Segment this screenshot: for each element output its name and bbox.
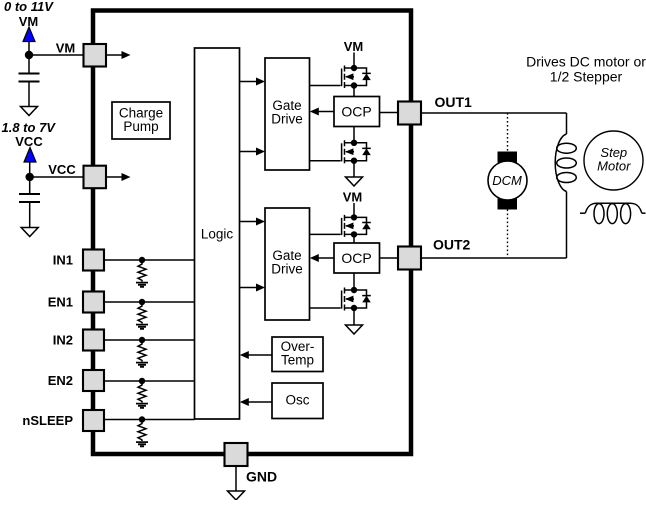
pin VCC (84, 166, 107, 189)
svg-text:0 to 11V: 0 to 11V (4, 0, 54, 14)
block Logic U-logic (195, 48, 240, 419)
svg-text:1/2 Stepper: 1/2 Stepper (550, 69, 623, 85)
wire VM flag to node (28, 42, 30, 74)
block OCP 1 (334, 97, 380, 127)
ground (half-bridge 2) (346, 325, 363, 334)
transistor Q4 (low side 2) (342, 287, 371, 311)
wire OCP1 to Gate Drive 1 (310, 108, 334, 116)
inductor L2 (second stepper winding) (580, 203, 646, 223)
svg-text:EN1: EN1 (48, 295, 73, 310)
resistor R-EN2 pulldown (136, 378, 148, 408)
wire IN1 to Logic (105, 259, 195, 261)
block Over-Temp (272, 337, 323, 372)
svg-text:Motor: Motor (597, 159, 631, 174)
chip outline (device boundary) (93, 11, 411, 455)
wire OCP2 to Gate Drive 2 (310, 254, 334, 262)
wire VCC pin internal arrow (106, 173, 131, 181)
wire Logic to Gate Drive 2 (a) (240, 218, 266, 226)
block Gate Drive 1 (265, 58, 310, 170)
wire EN2 to Logic (105, 380, 195, 382)
wire VM to Q3 drain (353, 203, 355, 217)
block OCP 2 (334, 243, 380, 273)
wire C2 to ground (29, 202, 31, 228)
resistor R-EN1 pulldown (136, 299, 148, 329)
svg-text:OUT2: OUT2 (433, 237, 471, 253)
DC motor M1 (488, 161, 527, 200)
block Gate Drive 2 (265, 208, 310, 320)
svg-text:Drive: Drive (271, 112, 303, 127)
wire VCC flag to node (29, 162, 31, 194)
resistor R-nSLEEP pulldown (136, 416, 148, 446)
svg-text:Logic: Logic (201, 226, 234, 241)
wire C1 to ground (28, 82, 30, 107)
svg-text:IN2: IN2 (53, 333, 73, 348)
node VM (25, 51, 33, 59)
svg-text:OUT1: OUT1 (435, 94, 473, 110)
ground (VCC cap) (21, 228, 38, 237)
wire Gate Drive 2 to Q4 gate (310, 307, 341, 309)
svg-text:Temp: Temp (281, 353, 314, 368)
wire Logic to Gate Drive 1 (a) (240, 78, 266, 86)
capacitor C2 (VCC bypass) (19, 194, 40, 202)
pin IN1 (83, 250, 104, 271)
inductor L1 (stepper winding) (555, 134, 576, 192)
ground (GND pin) (228, 491, 245, 500)
svg-text:OCP: OCP (341, 104, 371, 120)
pin VM (84, 44, 107, 67)
ground (VM cap) (21, 107, 38, 116)
wire Logic to Gate Drive 1 (b) (240, 148, 266, 156)
wire OCP2 to Q4 drain (353, 273, 355, 290)
wire OCP1 to OUT1 pin (380, 112, 399, 114)
note: Drives DC motor or 1/2 Stepper (526, 54, 646, 85)
svg-text:VM: VM (343, 190, 363, 205)
wire VCC node to VCC pin (30, 176, 84, 178)
pin EN2 (83, 370, 104, 391)
wire VM node to VM pin (29, 54, 84, 56)
block Charge Pump (112, 102, 170, 139)
wire OUT1 to DC motor (dotted) (507, 113, 509, 152)
wire Q2 source to ground (353, 161, 355, 177)
svg-text:1.8 to 7V: 1.8 to 7V (2, 120, 57, 135)
resistor R-IN1 pulldown (136, 257, 148, 287)
svg-text:VM: VM (56, 41, 76, 56)
block Osc (272, 383, 323, 419)
svg-text:GND: GND (246, 469, 277, 485)
transistor Q3 (high side 2) (342, 214, 371, 237)
pin OUT1 (398, 102, 421, 125)
wire Gate Drive 1 to Q2 gate (310, 160, 341, 162)
wire VM pin internal arrow (106, 51, 131, 59)
svg-text:VM: VM (344, 39, 364, 54)
svg-text:DCM: DCM (492, 173, 522, 188)
wire Osc to Logic (240, 398, 272, 406)
wire Gate Drive 2 to Q3 gate (310, 233, 341, 235)
wire OUT2 net (421, 257, 567, 259)
svg-text:OCP: OCP (341, 250, 371, 266)
svg-text:VCC: VCC (48, 162, 76, 177)
wire VM to Q1 drain (353, 53, 355, 69)
wire Over-Temp to Logic (240, 351, 272, 359)
svg-text:EN2: EN2 (48, 373, 73, 388)
wire Logic to Gate Drive 2 (b) (240, 284, 266, 292)
capacitor C1 (VM bypass) (19, 74, 40, 82)
svg-text:IN1: IN1 (53, 253, 73, 268)
wire Q4 source to ground (353, 308, 355, 325)
wire winding down to OUT2 net (566, 192, 568, 259)
wire Q3 source to OCP2 (353, 234, 355, 243)
pin IN2 (83, 330, 104, 351)
step motor M2 (584, 131, 643, 190)
pin EN1 (83, 292, 104, 313)
svg-text:Drive: Drive (271, 262, 303, 277)
DC motor brush (top) (498, 152, 518, 163)
wire GND pin to ground (235, 466, 237, 491)
wire Gate Drive 1 to Q1 gate (310, 85, 341, 87)
node VCC (26, 173, 34, 181)
wire OCP1 to Q2 drain (353, 127, 355, 143)
ground (half-bridge 1) (346, 177, 363, 186)
wire IN2 to Logic (105, 339, 195, 341)
wire OUT1 down to winding (566, 113, 568, 134)
wire nSLEEP to Logic (105, 419, 195, 421)
svg-text:VCC: VCC (15, 134, 43, 149)
wire Q1 source to OCP1 (353, 86, 355, 97)
svg-text:Drives DC motor or: Drives DC motor or (526, 54, 646, 70)
VCC power flag (blue triangle) (24, 148, 36, 163)
pin OUT2 (398, 247, 421, 270)
pin GND (225, 443, 248, 466)
wire EN1 to Logic (105, 301, 195, 303)
svg-text:nSLEEP: nSLEEP (22, 413, 73, 428)
wire OUT1 net (421, 112, 567, 114)
transistor Q1 (high side 1) (342, 65, 371, 89)
pin nSLEEP (83, 410, 104, 431)
svg-text:Pump: Pump (123, 119, 158, 134)
wire OCP2 to OUT2 pin (380, 257, 399, 259)
transistor Q2 (low side 1) (342, 140, 371, 164)
VM power flag (blue triangle) (23, 27, 35, 42)
wire DC motor to OUT2 (dotted) (507, 210, 509, 259)
svg-text:Osc: Osc (285, 392, 309, 407)
DC motor brush (bottom) (498, 199, 518, 210)
resistor R-IN2 pulldown (136, 337, 148, 367)
